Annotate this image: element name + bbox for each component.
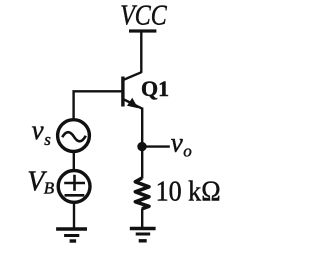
dc source minus sign [65, 194, 85, 197]
svg-text:Q1: Q1 [141, 76, 169, 101]
svg-text:s: s [44, 130, 51, 149]
ac source sine wave [62, 132, 86, 141]
transistor Q1 collector lead [124, 72, 142, 80]
transistor Q1 base bar [121, 77, 124, 107]
transistor Q1 emitter lead [124, 99, 142, 108]
wire vs to VB [73, 151, 75, 171]
resistor 10k zigzag [135, 178, 149, 209]
VCC supply bar [129, 29, 156, 32]
transistor Q1 emitter arrow [127, 98, 138, 108]
wire base to sources [74, 91, 122, 119]
dc source VB circle [58, 171, 90, 203]
wire VCC bar to collector [140, 31, 142, 73]
svg-text:v: v [32, 115, 44, 145]
ground right [130, 227, 156, 230]
ac source vs circle [58, 120, 90, 152]
dc source plus sign [64, 175, 85, 191]
wire node to resistor [141, 147, 143, 179]
svg-text:o: o [183, 141, 192, 160]
svg-text:VCC: VCC [120, 1, 167, 32]
svg-text:10 kΩ: 10 kΩ [156, 176, 221, 207]
wire node to vo label [142, 145, 170, 147]
svg-text:v: v [171, 128, 183, 158]
wire VB to ground [73, 203, 75, 229]
wire resistor to ground [141, 209, 143, 229]
wire emitter to output node [141, 108, 143, 147]
svg-text:B: B [44, 179, 55, 198]
node vo junction dot [137, 142, 146, 151]
ground left [56, 227, 87, 230]
